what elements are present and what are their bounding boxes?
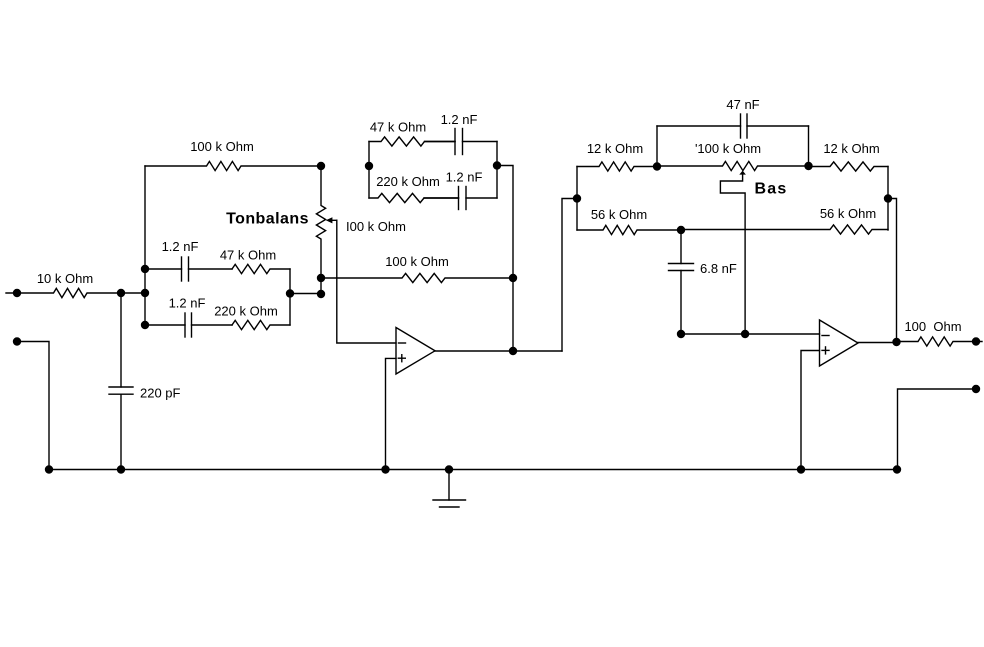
junction 56k-6.8nF: [677, 226, 685, 234]
op-amp U2: [820, 320, 859, 366]
junction bass right node: [884, 194, 892, 202]
capacitor 1.2 nF lower branch: [424, 187, 497, 210]
node B (RC bank left): [141, 289, 149, 297]
label 220 pF: [140, 386, 181, 401]
wire U1 output: [435, 350, 562, 352]
ground symbol: [433, 470, 466, 508]
wire IN2 to ground rail: [17, 342, 49, 470]
label 1.2 nF upper branch: [441, 112, 478, 127]
input terminal IN1: [13, 289, 21, 297]
junction rail right end: [893, 465, 901, 473]
junction wiper2 bottom: [741, 330, 749, 338]
wire 47nF right riser: [808, 126, 810, 166]
svg-text:1.2 nF: 1.2 nF: [162, 239, 199, 254]
junction RC bank right: [286, 289, 294, 297]
resistor 220 k Ohm lower bank: [232, 320, 290, 329]
label I00 k Ohm pot value: [346, 219, 406, 234]
label 47 nF: [726, 97, 759, 112]
pot wiper arrow Bas: [720, 171, 746, 334]
resistor 100 k Ohm feedback: [321, 273, 513, 282]
svg-text:47 nF: 47 nF: [726, 97, 759, 112]
capacitor 1.2 nF upper branch: [425, 129, 498, 155]
svg-text:47 k Ohm: 47 k Ohm: [220, 248, 276, 263]
junction pot right: [804, 162, 812, 170]
wire ground tap to lower output: [898, 389, 977, 470]
junction RC bank bottom-left: [141, 321, 149, 329]
svg-text:1.2 nF: 1.2 nF: [169, 296, 206, 311]
label 6.8 nF: [700, 261, 737, 276]
junction bass left node: [573, 194, 581, 202]
junction rail-left corner: [45, 465, 53, 473]
label 220 k Ohm upper: [376, 174, 440, 189]
junction 6.8nF bottom: [677, 330, 685, 338]
svg-text:56 k Ohm: 56 k Ohm: [591, 207, 647, 222]
wire right node to output column: [888, 199, 897, 343]
junction U2 plus rail: [797, 465, 805, 473]
resistor 56 k Ohm right: [681, 225, 888, 234]
wire upper net to feedback column: [497, 166, 513, 352]
capacitor 47 nF: [657, 114, 809, 138]
label 56 k Ohm right: [820, 206, 876, 221]
label 47 k Ohm lower bank: [220, 248, 276, 263]
wire U1 out up to bass section: [562, 199, 577, 352]
wire upper net left column: [368, 142, 370, 199]
svg-text:12 k Ohm: 12 k Ohm: [587, 141, 643, 156]
capacitor 1.2 nF lower-left: [145, 313, 232, 337]
wire upper net right column: [496, 142, 498, 199]
junction U1 plus rail: [381, 465, 389, 473]
junction pot top: [317, 162, 325, 170]
wire op2 inverting row: [681, 333, 820, 335]
capacitor 1.2 nF upper-left: [145, 257, 232, 281]
wire bass right column: [887, 167, 889, 231]
label Tonbalans: [226, 211, 309, 228]
junction U1 output: [509, 347, 517, 355]
pot wiper arrow Tonbalans: [326, 217, 337, 223]
input terminal IN2: [13, 337, 21, 345]
junction rail 220pF: [117, 465, 125, 473]
svg-text:Tonbalans: Tonbalans: [226, 211, 309, 228]
label 1.2 nF upper-left: [162, 239, 199, 254]
svg-text:220 k Ohm: 220 k Ohm: [376, 174, 440, 189]
svg-text:1.2 nF: 1.2 nF: [446, 170, 483, 185]
wire left column x145: [144, 166, 146, 325]
svg-text:Bas: Bas: [755, 181, 788, 198]
junction U2 output: [892, 338, 900, 346]
junction pot bottom: [317, 274, 325, 282]
svg-text:1.2 nF: 1.2 nF: [441, 112, 478, 127]
resistor 10 k Ohm input: [6, 288, 145, 297]
label 100 k Ohm top-left: [190, 139, 254, 154]
label 100 k Ohm feedback: [385, 254, 449, 269]
resistor 100 Ohm output: [897, 337, 983, 346]
output terminal OUT2: [972, 385, 980, 393]
svg-text:47 k Ohm: 47 k Ohm: [370, 120, 426, 135]
resistor 100 k Ohm top-left: [145, 161, 321, 170]
junction upper net right: [493, 161, 501, 169]
capacitor 6.8 nF: [669, 230, 694, 334]
svg-text:6.8 nF: 6.8 nF: [700, 261, 737, 276]
wire 47nF left riser: [656, 126, 658, 167]
ground rail wire: [49, 469, 897, 471]
label 10 k Ohm: [37, 271, 93, 286]
svg-text:100 k Ohm: 100 k Ohm: [385, 254, 449, 269]
resistor 47 k Ohm upper: [369, 137, 455, 146]
svg-text:100 Ohm: 100 Ohm: [904, 319, 961, 334]
label 100 Ohm: [904, 319, 961, 334]
wire U1 noninverting to rail: [386, 358, 397, 469]
label Bas: [755, 181, 788, 198]
svg-text:12 k Ohm: 12 k Ohm: [823, 141, 879, 156]
junction rail ground: [445, 465, 453, 473]
op-amp U1: [396, 328, 435, 375]
junction pot bottom2: [317, 290, 325, 298]
resistor 220 k Ohm upper: [369, 193, 459, 202]
svg-text:I00 k Ohm: I00 k Ohm: [346, 219, 406, 234]
svg-text:10 k Ohm: 10 k Ohm: [37, 271, 93, 286]
label 47 k Ohm upper: [370, 120, 426, 135]
junction RC bank top-left: [141, 265, 149, 273]
label 56 k Ohm left: [591, 207, 647, 222]
wire wiper1 down to op-amp: [337, 220, 396, 343]
svg-text:220 k Ohm: 220 k Ohm: [214, 304, 278, 319]
wire RC bank out: [290, 293, 321, 295]
svg-text:220 pF: 220 pF: [140, 386, 181, 401]
resistor 12 k Ohm right: [809, 162, 889, 171]
label '100 k Ohm pot value: [695, 141, 761, 156]
junction upper net left: [365, 162, 373, 170]
wire U2 output: [858, 342, 897, 344]
label 1.2 nF lower branch: [446, 170, 483, 185]
junction 12k-pot left: [653, 162, 661, 170]
label 12 k Ohm right: [823, 141, 879, 156]
svg-text:'100 k Ohm: '100 k Ohm: [695, 141, 761, 156]
resistor 56 k Ohm left: [577, 225, 681, 234]
resistor 12 k Ohm left: [577, 162, 657, 171]
capacitor 220 pF: [109, 293, 133, 470]
node A (after 10k): [117, 289, 125, 297]
resistor 47 k Ohm lower bank: [232, 264, 290, 273]
label 1.2 nF lower-left: [169, 296, 206, 311]
svg-text:100 k Ohm: 100 k Ohm: [190, 139, 254, 154]
wire RC bank right column: [289, 269, 291, 325]
label 12 k Ohm left: [587, 141, 643, 156]
potentiometer Tonbalans 100k body: [316, 166, 325, 294]
wire bass left column: [576, 167, 578, 231]
output terminal OUT1: [972, 337, 980, 345]
potentiometer Bas 100k body: [657, 161, 809, 170]
junction feedback node: [509, 274, 517, 282]
wire U2 noninverting to rail: [801, 351, 820, 470]
svg-text:56 k Ohm: 56 k Ohm: [820, 206, 876, 221]
label 220 k Ohm lower bank: [214, 304, 278, 319]
